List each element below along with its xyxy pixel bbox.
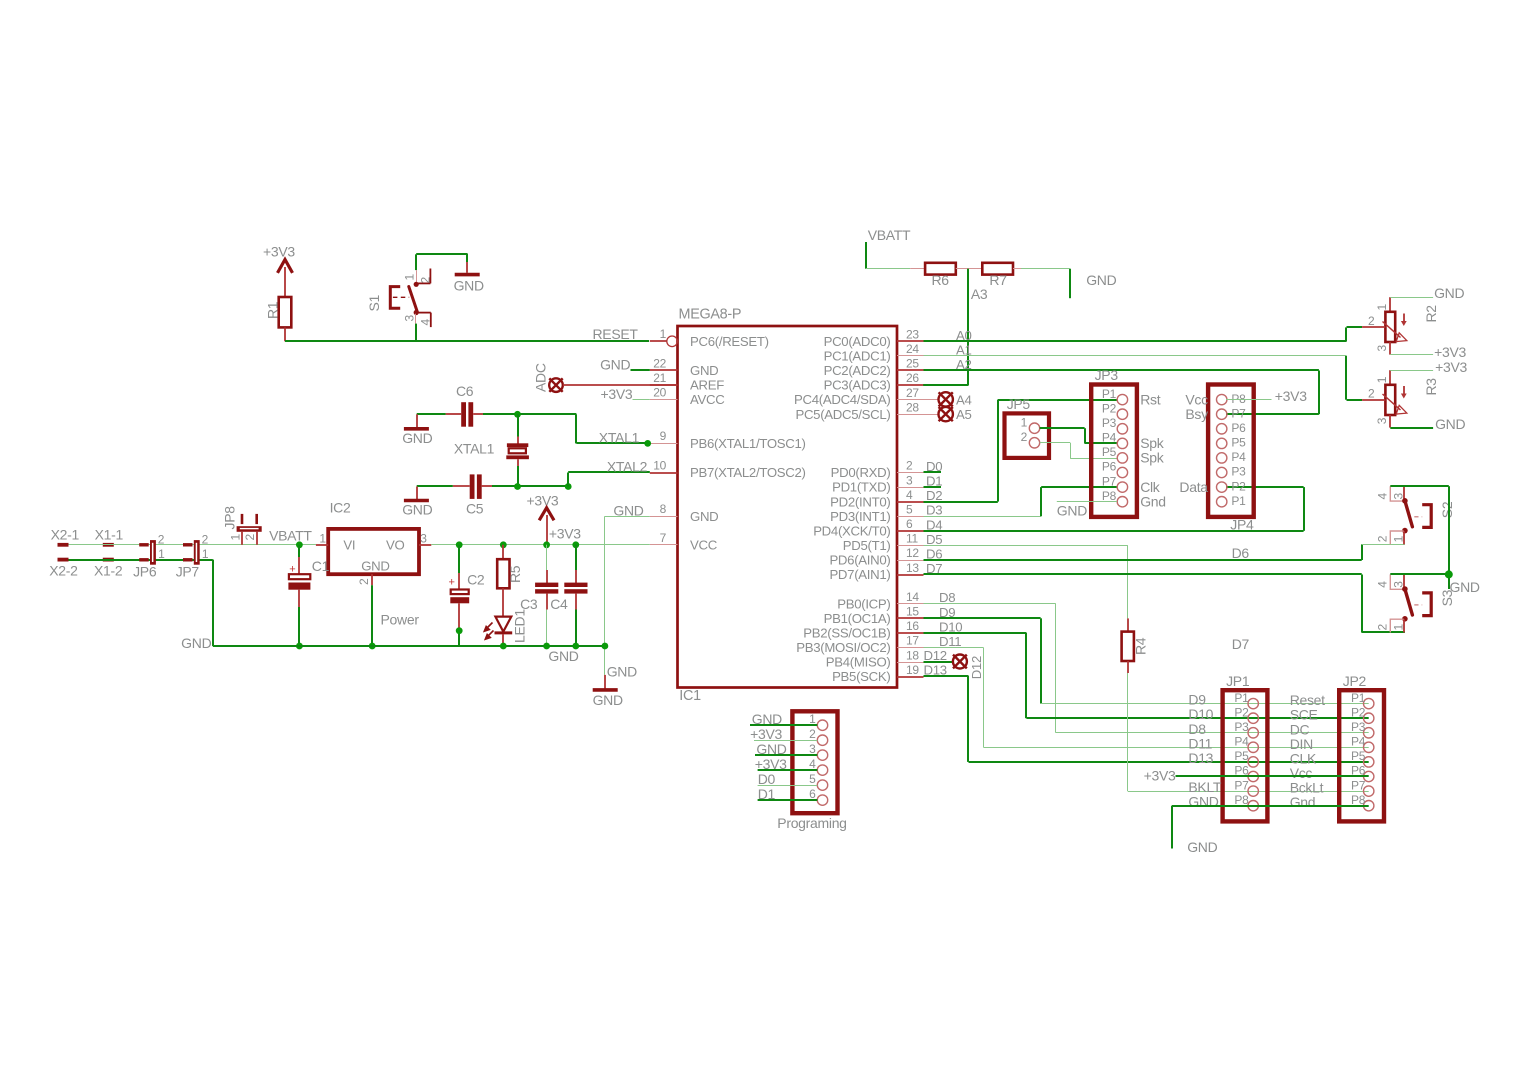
svg-text:+3V3: +3V3 xyxy=(1435,359,1467,375)
svg-text:D9: D9 xyxy=(1188,692,1206,708)
connector JP5 xyxy=(1005,396,1050,458)
wire A1 net (pin 24 to R3 pin2) xyxy=(924,342,1363,400)
svg-text:R1: R1 xyxy=(265,301,281,319)
svg-text:GND: GND xyxy=(402,502,432,518)
junction C2 top xyxy=(456,541,463,548)
node ADC (crossed-circle junction on AREF pin 21) xyxy=(533,363,563,392)
svg-text:X1-2: X1-2 xyxy=(94,562,123,578)
svg-text:26: 26 xyxy=(906,371,919,385)
svg-text:Bsy: Bsy xyxy=(1185,406,1208,422)
wire VCC rail (IC2 VO to pin 7) xyxy=(431,544,650,546)
svg-text:VBATT: VBATT xyxy=(868,227,911,243)
svg-text:JP6: JP6 xyxy=(133,564,157,580)
wires and labels programming header xyxy=(750,711,817,802)
wire D4 / Data net (pin 6 to JP4 P2) xyxy=(924,487,1305,532)
svg-text:+3V3: +3V3 xyxy=(1434,344,1466,360)
svg-text:GND: GND xyxy=(361,559,389,574)
svg-text:AREF: AREF xyxy=(690,378,724,393)
svg-text:Power: Power xyxy=(381,612,420,628)
connector X1-1 pad xyxy=(95,527,124,547)
svg-text:3: 3 xyxy=(420,532,427,546)
wire R6-R7 link xyxy=(956,268,983,270)
svg-text:5: 5 xyxy=(809,772,816,786)
svg-text:4: 4 xyxy=(1375,581,1389,588)
labels JP1 left column xyxy=(1144,692,1222,810)
svg-text:P5: P5 xyxy=(1351,749,1366,763)
svg-text:GND: GND xyxy=(600,357,630,373)
svg-text:PC1(ADC1): PC1(ADC1) xyxy=(824,349,891,364)
svg-text:JP4: JP4 xyxy=(1230,517,1254,533)
svg-text:XTAL1: XTAL1 xyxy=(454,441,495,457)
svg-text:P4: P4 xyxy=(1351,735,1366,749)
wire +3V3 to JP1/JP2 P6 row xyxy=(1176,775,1369,777)
svg-text:P6: P6 xyxy=(1102,460,1117,474)
node D12 (crossed circle at pin 18) xyxy=(924,648,985,679)
resistor R5 xyxy=(497,545,523,617)
svg-text:PB2(SS/OC1B): PB2(SS/OC1B) xyxy=(803,626,890,641)
svg-text:PB5(SCK): PB5(SCK) xyxy=(832,669,890,684)
svg-text:R6: R6 xyxy=(932,272,950,288)
svg-text:3: 3 xyxy=(403,315,417,322)
wire ADC to pin 21 xyxy=(563,384,678,386)
svg-text:2: 2 xyxy=(1021,430,1028,444)
IC1 left pin stubs with pin numbers xyxy=(650,327,678,545)
svg-text:D13: D13 xyxy=(1188,750,1213,766)
connector X2-2 pad xyxy=(49,558,78,579)
svg-text:D1: D1 xyxy=(926,474,942,489)
switch S2 xyxy=(1375,486,1455,544)
svg-text:1: 1 xyxy=(202,547,209,561)
svg-text:P1: P1 xyxy=(1102,387,1117,401)
wire D2 / Rst net (pin 4 to JP3 P1) xyxy=(924,400,1118,503)
svg-text:A1: A1 xyxy=(956,342,972,357)
switch S1 xyxy=(366,254,433,341)
svg-text:1: 1 xyxy=(1392,535,1406,542)
svg-text:+3V3: +3V3 xyxy=(755,756,787,772)
wire D3 / Clk net (pin 5 to JP3 P7) xyxy=(924,487,1118,518)
connector JP4 xyxy=(1208,385,1254,533)
svg-text:GND: GND xyxy=(607,664,637,680)
wire GND bottom row xyxy=(181,635,605,651)
connector X2-1 pad xyxy=(51,527,80,547)
svg-text:8: 8 xyxy=(660,502,667,516)
svg-text:C2: C2 xyxy=(467,572,485,588)
svg-text:19: 19 xyxy=(906,663,919,677)
jumper JP6 xyxy=(133,532,165,579)
svg-text:A2: A2 xyxy=(956,357,972,372)
svg-text:GND: GND xyxy=(1086,272,1116,288)
svg-text:PD2(INT0): PD2(INT0) xyxy=(830,494,890,509)
svg-text:+3V3: +3V3 xyxy=(1144,768,1176,784)
ground GND (C5) xyxy=(402,501,432,518)
wire A3 net (R6/R7 mid down to pin 26) xyxy=(923,269,988,385)
svg-text:P3: P3 xyxy=(1234,720,1249,734)
svg-text:R3: R3 xyxy=(1423,378,1439,396)
svg-text:PD5(T1): PD5(T1) xyxy=(843,538,891,553)
wire D8 net (pin 14 to JP1 P3 row) xyxy=(924,590,1369,733)
svg-text:P8: P8 xyxy=(1234,793,1249,807)
svg-text:LED1: LED1 xyxy=(512,609,528,643)
svg-text:+3V3: +3V3 xyxy=(527,493,559,509)
svg-text:C1: C1 xyxy=(312,558,330,574)
wire D10 / SCE net (pin 16 to JP2 P2) xyxy=(924,619,1369,718)
svg-text:P5: P5 xyxy=(1231,436,1246,450)
svg-text:XTAL2: XTAL2 xyxy=(607,458,648,474)
svg-text:2: 2 xyxy=(1375,535,1389,542)
svg-text:Rst: Rst xyxy=(1140,391,1161,407)
svg-text:PB7(XTAL2/TOSC2): PB7(XTAL2/TOSC2) xyxy=(690,465,806,480)
resistor R4 xyxy=(1122,618,1149,673)
svg-text:24: 24 xyxy=(906,342,919,356)
svg-text:6: 6 xyxy=(906,517,913,531)
ground GND (bottom center) xyxy=(593,690,623,708)
svg-text:D12: D12 xyxy=(969,656,984,679)
svg-text:XTAL1: XTAL1 xyxy=(599,429,640,445)
svg-text:P1: P1 xyxy=(1351,691,1366,705)
wire R2 pin1 to GND xyxy=(1390,285,1464,301)
svg-text:R4: R4 xyxy=(1133,637,1149,655)
svg-text:R5: R5 xyxy=(507,565,523,583)
svg-text:D12: D12 xyxy=(924,648,947,663)
svg-text:18: 18 xyxy=(906,648,919,662)
svg-text:4: 4 xyxy=(906,488,913,502)
wire row2 (GND side) xyxy=(69,560,214,646)
svg-text:1: 1 xyxy=(660,327,667,341)
svg-text:P8: P8 xyxy=(1351,793,1366,807)
svg-text:VCC: VCC xyxy=(690,538,718,553)
wire +3V3 label net at pin 20 xyxy=(601,386,650,402)
labels JP3 right (Rst/Spk/Clk/Gnd) xyxy=(1140,391,1166,509)
wire D1 stub xyxy=(924,474,943,489)
svg-text:VO: VO xyxy=(386,538,404,553)
svg-text:CLK: CLK xyxy=(1290,750,1317,766)
wire JP5 pin1 to JP3 P4 xyxy=(1040,428,1117,443)
svg-text:P2: P2 xyxy=(1234,705,1249,719)
svg-text:JP7: JP7 xyxy=(176,564,200,580)
junction GND at S2/S3 xyxy=(1445,570,1453,578)
svg-text:PD6(AIN0): PD6(AIN0) xyxy=(829,553,890,568)
svg-text:P8: P8 xyxy=(1231,392,1246,406)
wire D13 net (pin 19 to JP1 P5 row) xyxy=(924,663,1369,763)
svg-text:JP3: JP3 xyxy=(1095,367,1119,383)
capacitor C3 xyxy=(520,545,558,646)
wire S2 pins3/4 to GND column xyxy=(1390,486,1449,574)
svg-text:BckLt: BckLt xyxy=(1290,780,1324,796)
svg-text:D9: D9 xyxy=(939,605,955,620)
capacitor C4 xyxy=(550,545,587,646)
svg-text:PD1(TXD): PD1(TXD) xyxy=(832,480,890,495)
svg-text:SCE: SCE xyxy=(1290,707,1318,723)
svg-text:15: 15 xyxy=(906,605,919,619)
svg-text:GND: GND xyxy=(181,635,211,651)
svg-text:D3: D3 xyxy=(926,503,942,518)
labels JP2 signal names xyxy=(1290,692,1325,810)
svg-text:JP8: JP8 xyxy=(222,506,238,530)
svg-text:7: 7 xyxy=(660,531,667,545)
svg-text:GND: GND xyxy=(752,711,782,727)
svg-text:D4: D4 xyxy=(926,517,942,532)
wire RESET net (R1 to IC1 pin1, with S1 tap) xyxy=(285,326,649,342)
svg-text:17: 17 xyxy=(906,634,919,648)
svg-text:D8: D8 xyxy=(939,590,955,605)
svg-text:P2: P2 xyxy=(1102,401,1117,415)
junction C1 top xyxy=(296,541,303,548)
junction C6/crystal top xyxy=(514,411,521,418)
capacitor C6 xyxy=(446,383,483,427)
svg-text:PC3(ADC3): PC3(ADC3) xyxy=(824,378,891,393)
svg-text:D7: D7 xyxy=(926,561,942,576)
wire S3 pins3/4 to GND junction xyxy=(1390,574,1480,595)
svg-text:P7: P7 xyxy=(1351,778,1366,792)
svg-text:C5: C5 xyxy=(466,501,484,517)
svg-text:1: 1 xyxy=(1375,376,1389,383)
wire VBATT rail (row1) xyxy=(69,544,316,546)
svg-text:PB0(ICP): PB0(ICP) xyxy=(837,596,890,611)
svg-text:Programing: Programing xyxy=(777,815,846,831)
svg-text:4: 4 xyxy=(419,319,433,326)
IC1 right pin stubs with pin numbers xyxy=(897,328,924,678)
svg-text:PB4(MISO): PB4(MISO) xyxy=(826,655,891,670)
svg-text:P1: P1 xyxy=(1234,691,1249,705)
svg-text:AVCC: AVCC xyxy=(690,392,725,407)
svg-text:+3V3: +3V3 xyxy=(549,525,581,541)
wire GND to P8 row and stub down xyxy=(1172,806,1369,855)
svg-text:PB6(XTAL1/TOSC1): PB6(XTAL1/TOSC1) xyxy=(690,436,806,451)
svg-text:16: 16 xyxy=(906,619,919,633)
svg-text:Data: Data xyxy=(1179,479,1208,495)
svg-text:P7: P7 xyxy=(1102,474,1117,488)
svg-text:Vcc: Vcc xyxy=(1185,391,1208,407)
svg-text:C6: C6 xyxy=(456,383,474,399)
svg-text:2: 2 xyxy=(906,459,913,473)
IC1 left pin names xyxy=(690,334,806,553)
wire D11 net (pin 17 to JP1 P4 row) xyxy=(924,634,1369,748)
svg-text:11: 11 xyxy=(906,532,918,546)
wire R3 pin3 to GND xyxy=(1390,416,1465,432)
svg-text:2: 2 xyxy=(1375,624,1389,631)
svg-text:Gnd: Gnd xyxy=(1290,794,1316,810)
junction C1 bottom xyxy=(296,643,303,650)
junction GND column xyxy=(602,643,609,650)
svg-text:12: 12 xyxy=(906,546,919,560)
svg-text:D10: D10 xyxy=(1188,706,1213,722)
svg-text:GND: GND xyxy=(613,502,643,518)
svg-text:ADC: ADC xyxy=(533,363,549,392)
svg-text:P3: P3 xyxy=(1231,465,1246,479)
svg-text:D0: D0 xyxy=(758,771,776,787)
svg-text:1: 1 xyxy=(1375,304,1389,311)
svg-text:A0: A0 xyxy=(956,328,972,343)
wire D7 net (pin 13 to S3 pin1) xyxy=(924,561,1405,652)
svg-text:X1-1: X1-1 xyxy=(95,527,124,543)
svg-text:JP1: JP1 xyxy=(1226,673,1250,689)
svg-text:C3: C3 xyxy=(520,596,538,612)
svg-text:+3V3: +3V3 xyxy=(750,726,782,742)
svg-text:GND: GND xyxy=(756,741,786,757)
wire D0 stub xyxy=(924,459,943,474)
svg-text:2: 2 xyxy=(243,534,257,541)
wire C5 left to GND xyxy=(417,486,453,500)
svg-text:P4: P4 xyxy=(1234,735,1249,749)
svg-text:2: 2 xyxy=(158,532,165,546)
svg-text:9: 9 xyxy=(660,429,667,443)
svg-text:X2-2: X2-2 xyxy=(49,562,78,578)
svg-text:Spk: Spk xyxy=(1140,450,1165,466)
svg-text:1: 1 xyxy=(158,547,165,561)
svg-text:GND: GND xyxy=(690,363,718,378)
svg-text:D11: D11 xyxy=(1188,735,1212,751)
node A5 (crossed circle at pin 28) xyxy=(924,407,972,422)
svg-text:D5: D5 xyxy=(926,532,942,547)
wire XTAL2 net to pin 10 xyxy=(568,458,650,486)
wire C6 left to GND xyxy=(417,414,446,428)
junction IC2 pin2 at GND row xyxy=(369,643,376,650)
resistor R6 xyxy=(910,263,956,288)
jumper JP7 xyxy=(176,532,209,579)
svg-text:D1: D1 xyxy=(758,786,776,802)
svg-text:D10: D10 xyxy=(939,619,962,634)
svg-text:GND: GND xyxy=(593,692,623,708)
svg-text:2: 2 xyxy=(809,727,816,741)
power +3V3 (above C3) xyxy=(527,493,559,546)
svg-text:1: 1 xyxy=(229,534,243,541)
svg-text:3: 3 xyxy=(906,473,913,487)
svg-text:PD7(AIN1): PD7(AIN1) xyxy=(829,567,890,582)
svg-text:GND: GND xyxy=(1450,579,1480,595)
svg-text:PC6(/RESET): PC6(/RESET) xyxy=(690,334,769,349)
IC1 pin 1 inversion bubble xyxy=(667,336,678,347)
svg-text:P5: P5 xyxy=(1102,445,1117,459)
svg-text:Reset: Reset xyxy=(1290,692,1325,708)
IC U1: IC1 MEGA8-P body xyxy=(678,307,898,705)
svg-text:3: 3 xyxy=(1375,417,1389,424)
svg-text:P2: P2 xyxy=(1351,705,1366,719)
wire JP4 P8 +3V3 stub xyxy=(1226,388,1307,404)
svg-text:2: 2 xyxy=(419,277,433,284)
trimmer R3 xyxy=(1362,370,1439,427)
svg-text:GND: GND xyxy=(1057,502,1087,518)
resistor R1 xyxy=(265,297,292,341)
svg-text:P1: P1 xyxy=(1231,494,1246,508)
svg-text:4: 4 xyxy=(1375,493,1389,500)
svg-text:GND: GND xyxy=(548,648,578,664)
svg-text:5: 5 xyxy=(906,503,913,517)
wire VBATT (right) xyxy=(866,227,911,269)
wire JP5 pin2 to JP3 P5 xyxy=(1040,443,1117,459)
wire BKLT net (R4 to JP1 P7 row) xyxy=(1128,673,1369,792)
svg-text:Gnd: Gnd xyxy=(1140,494,1166,510)
svg-text:22: 22 xyxy=(653,356,666,370)
svg-text:D6: D6 xyxy=(926,547,942,562)
junction LED1 bottom xyxy=(500,643,507,650)
capacitor C5 xyxy=(453,474,492,516)
LED LED1 xyxy=(484,609,527,646)
svg-text:GND: GND xyxy=(690,509,718,524)
svg-text:P3: P3 xyxy=(1102,416,1117,430)
svg-text:P6: P6 xyxy=(1231,421,1246,435)
svg-text:PB3(MOSI/OC2): PB3(MOSI/OC2) xyxy=(796,640,890,655)
svg-text:P3: P3 xyxy=(1351,720,1366,734)
svg-text:3: 3 xyxy=(1392,493,1406,500)
wire R7 to GND stub xyxy=(1021,269,1117,299)
connector programming header xyxy=(777,711,846,831)
svg-text:2: 2 xyxy=(202,532,209,546)
wire D5 net (pin 11 to R4) xyxy=(924,532,1128,619)
svg-text:20: 20 xyxy=(653,385,666,399)
svg-text:1: 1 xyxy=(319,532,326,546)
svg-text:3: 3 xyxy=(1392,581,1406,588)
ground GND (C6) xyxy=(402,429,432,446)
wire D9 net (pin 15 to JP1 P1 row) xyxy=(924,605,1369,704)
power +3V3 (top left) xyxy=(263,244,295,298)
svg-text:PB1(OC1A): PB1(OC1A) xyxy=(824,611,891,626)
crystal XTAL1 xyxy=(454,414,529,486)
svg-text:GND: GND xyxy=(454,278,484,294)
wire A0 net (pin 23 to R2 pin2) xyxy=(924,327,1363,343)
svg-text:PC0(ADC0): PC0(ADC0) xyxy=(824,334,891,349)
svg-text:R7: R7 xyxy=(989,272,1007,288)
svg-text:JP2: JP2 xyxy=(1343,673,1367,689)
svg-text:IC2: IC2 xyxy=(330,499,351,515)
wire JP3 P8 Gnd stub xyxy=(1057,502,1117,519)
svg-text:27: 27 xyxy=(906,386,919,400)
svg-text:D7: D7 xyxy=(1232,636,1250,652)
svg-text:A3: A3 xyxy=(971,286,988,302)
svg-text:BKLT: BKLT xyxy=(1188,779,1222,795)
junction C4 bottom xyxy=(572,643,579,650)
wire XTAL1 top net: C6 right to crystal top and down-jog to pin 9 xyxy=(483,414,648,445)
svg-text:GND: GND xyxy=(1434,285,1464,301)
junction C3/+3V3 xyxy=(543,541,550,548)
svg-text:A5: A5 xyxy=(956,407,972,422)
junction C2 bottom xyxy=(456,627,463,634)
svg-text:10: 10 xyxy=(653,458,666,472)
junction XTAL2 corner xyxy=(565,483,572,490)
wire R2 pin3 to +3V3 xyxy=(1390,344,1466,360)
svg-text:PD3(INT1): PD3(INT1) xyxy=(830,509,890,524)
svg-text:JP5: JP5 xyxy=(1007,396,1031,412)
svg-text:14: 14 xyxy=(906,590,919,604)
wire crystal bottom row xyxy=(492,485,568,487)
capacitor C1 (polarized) xyxy=(288,545,329,646)
svg-text:Vcc: Vcc xyxy=(1290,765,1313,781)
svg-text:R2: R2 xyxy=(1423,305,1439,323)
labels JP4 left (Vcc/Bsy/Data) xyxy=(1179,391,1208,495)
capacitor C2 (polarized) xyxy=(449,545,485,646)
svg-text:P7: P7 xyxy=(1234,778,1249,792)
svg-text:21: 21 xyxy=(653,371,666,385)
svg-text:A4: A4 xyxy=(956,392,972,407)
svg-text:D11: D11 xyxy=(939,634,961,649)
wire D6 net (pin 12 to S2 pin1) xyxy=(924,544,1405,561)
svg-text:2: 2 xyxy=(357,578,371,585)
svg-text:P7: P7 xyxy=(1231,406,1246,420)
svg-text:RESET: RESET xyxy=(593,326,639,342)
IC1 right pin names xyxy=(794,334,891,684)
svg-text:3: 3 xyxy=(1375,345,1389,352)
junction R5 top xyxy=(500,541,507,548)
junction C3 bottom xyxy=(543,643,550,650)
node A4 (crossed circle at pin 27) xyxy=(924,392,972,407)
svg-text:MEGA8-P: MEGA8-P xyxy=(679,307,742,323)
svg-text:D6: D6 xyxy=(1232,545,1250,561)
svg-text:PD0(RXD): PD0(RXD) xyxy=(831,465,891,480)
wire S1 pin2 to GND xyxy=(416,254,467,273)
connector JP1 xyxy=(1223,673,1268,821)
svg-text:X2-1: X2-1 xyxy=(51,527,80,543)
svg-text:P4: P4 xyxy=(1231,450,1246,464)
svg-text:PC2(ADC2): PC2(ADC2) xyxy=(824,363,891,378)
